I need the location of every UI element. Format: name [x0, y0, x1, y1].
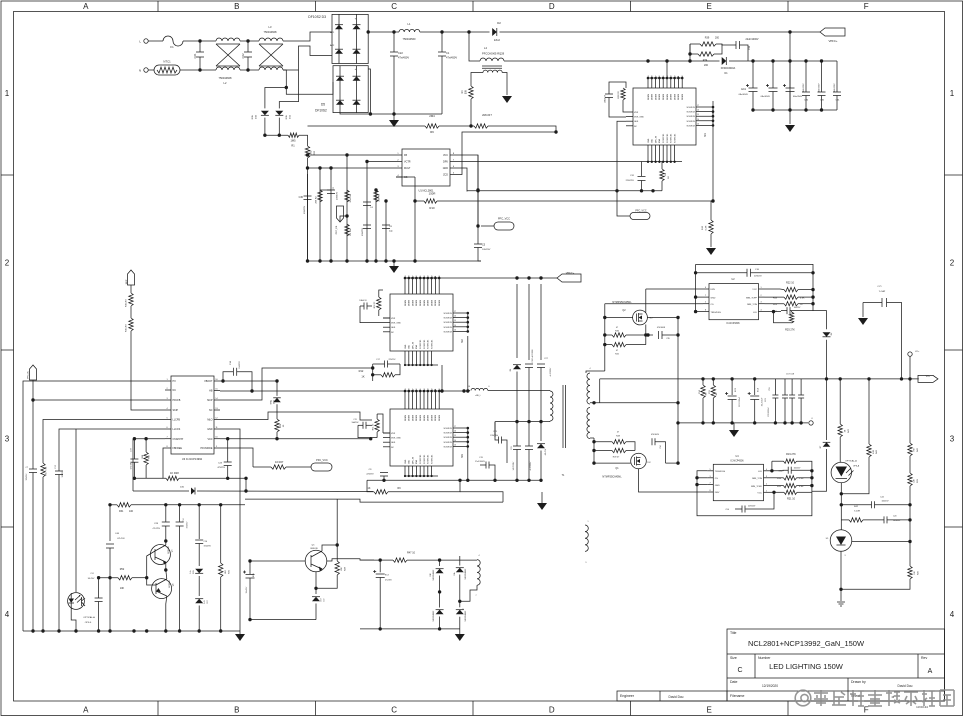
center tap wire	[590, 402, 678, 404]
U3 pin 16 VBOOT	[214, 380, 220, 382]
capacitor	[95, 597, 103, 599]
svg-text:4: 4	[766, 469, 767, 471]
svg-text:3: 3	[5, 435, 10, 444]
wire R11 down	[307, 158, 309, 261]
svg-text:12: 12	[431, 389, 433, 391]
svg-text:PFC_VCC: PFC_VCC	[316, 459, 328, 462]
capacitor C36 1N4/630V	[805, 61, 807, 92]
svg-text:15: 15	[454, 435, 456, 437]
capacitor C40 1N4/630V	[821, 61, 823, 92]
wire Q5 region to EC3 rail	[327, 559, 380, 561]
svg-text:ESU: ESU	[252, 114, 254, 119]
svg-text:4: 4	[760, 310, 761, 312]
svg-text:OPTICAL-A: OPTICAL-A	[845, 460, 857, 463]
U3 pin 10 VCC	[214, 438, 220, 440]
U3 pin 5 LLCFB	[165, 419, 171, 421]
wire gate node to vertical	[666, 462, 679, 464]
svg-text:11: 11	[678, 76, 680, 78]
svg-text:VO+: VO+	[915, 351, 920, 353]
svg-text:GND: GND	[405, 344, 407, 349]
EC3 and output aux	[360, 559, 374, 561]
wire MLO to low side gate	[220, 412, 372, 420]
svg-text:GND: GND	[207, 428, 213, 431]
sense rail junction	[711, 199, 714, 202]
svg-text:68u/450V: 68u/450V	[793, 96, 803, 98]
svg-text:ESU: ESU	[286, 114, 288, 119]
inductor L5	[471, 388, 488, 390]
GaN IC M1 outline	[633, 88, 696, 145]
resistor	[660, 169, 664, 181]
bottom bus of PFC controller	[308, 260, 482, 262]
svg-text:C1: C1	[446, 51, 450, 55]
resistor R50 33	[377, 297, 381, 310]
svg-text:PFC_VCC: PFC_VCC	[635, 210, 646, 213]
svg-text:GES: GES	[634, 121, 639, 123]
capacitor C10	[746, 269, 748, 277]
capacitor C46	[106, 543, 114, 545]
svg-text:2: 2	[5, 259, 10, 268]
svg-text:VDR_GND: VDR_GND	[634, 117, 644, 119]
zener D7	[823, 442, 831, 446]
svg-text:D1b: D1b	[454, 572, 456, 575]
svg-text:DRAIN: DRAIN	[404, 299, 407, 306]
diode	[353, 25, 361, 30]
svg-text:CS: CS	[715, 478, 719, 480]
U4 right rail	[811, 471, 813, 493]
connector PFC_VCC	[494, 222, 514, 230]
svg-text:R39: R39	[705, 37, 710, 40]
svg-text:B: B	[234, 706, 239, 715]
resistor R51 33	[375, 419, 379, 432]
junction	[246, 39, 249, 42]
svg-text:1S2/25V: 1S2/25V	[204, 546, 212, 548]
resistor R6	[425, 124, 439, 128]
U4 bottom wire	[697, 485, 812, 516]
U3 pin 12 MLO	[214, 419, 220, 421]
svg-text:EC4: EC4	[758, 388, 760, 392]
capacitor C14 104/25V	[233, 368, 235, 376]
svg-text:100K: 100K	[142, 454, 144, 459]
svg-text:13: 13	[428, 276, 430, 278]
svg-text:47n/450V: 47n/450V	[398, 56, 409, 60]
svg-text:22uF/1000V: 22uF/1000V	[745, 38, 758, 41]
resistor R15 2K7	[130, 306, 132, 318]
sync controller U4 NCP4306	[713, 464, 763, 500]
capacitor	[802, 91, 810, 93]
svg-text:DRAIN: DRAIN	[654, 93, 657, 100]
U1 pin 6 GND	[450, 167, 456, 169]
capacitor C54	[741, 506, 743, 513]
capacitor	[382, 224, 390, 226]
svg-text:18: 18	[652, 76, 654, 78]
svg-text:16: 16	[416, 276, 418, 278]
svg-text:10S/25V: 10S/25V	[62, 470, 64, 478]
bridge lower return bus	[340, 113, 394, 114]
wire VCC right	[456, 155, 478, 226]
U3 pin 15 HB	[214, 390, 220, 392]
svg-text:46L/10k: 46L/10k	[545, 449, 547, 455]
U2 pin 8 TRIG/DSS	[703, 311, 709, 313]
svg-text:13: 13	[697, 123, 699, 125]
svg-text:750344608: 750344608	[219, 76, 233, 80]
svg-text:15: 15	[420, 276, 422, 278]
svg-text:DRAIN: DRAIN	[434, 299, 437, 306]
svg-text:R34: R34	[703, 59, 708, 62]
svg-text:4: 4	[950, 610, 955, 619]
svg-text:10L/20V: 10L/20V	[88, 578, 95, 580]
capacitor	[605, 93, 613, 95]
resistor	[621, 88, 625, 100]
svg-text:U3 IC-NCP13992: U3 IC-NCP13992	[182, 457, 203, 461]
M1 left pins	[626, 111, 633, 113]
sync controller U2 NCP4306	[709, 284, 759, 320]
svg-text:Title: Title	[730, 631, 737, 635]
U4 pin 7 GND	[707, 484, 713, 486]
capacitor C42	[871, 501, 873, 508]
U2 GND wire	[696, 296, 703, 298]
U4 loop to resistors	[770, 470, 772, 472]
diode D13 MBR20H100F	[456, 610, 464, 615]
wire VCTR net	[367, 162, 396, 191]
svg-text:10S/25V: 10S/25V	[482, 249, 491, 251]
junction	[263, 134, 266, 137]
resistor R21 10	[770, 491, 775, 493]
junction main rail	[646, 59, 649, 62]
resistor R48 20K	[335, 561, 339, 575]
U4 left wires	[697, 471, 707, 485]
diode D1	[722, 57, 727, 65]
capacitor C21	[786, 307, 788, 314]
svg-text:C22: C22	[398, 51, 403, 55]
svg-text:SOURCE3: SOURCE3	[667, 134, 669, 143]
svg-text:20K R2: 20K R2	[316, 196, 318, 204]
svg-text:D17: D17	[321, 598, 323, 601]
svg-text:1S2: 1S2	[647, 462, 650, 464]
resistor R47 10	[393, 558, 407, 562]
svg-text:11: 11	[435, 389, 437, 391]
Q1 gate resistors R48 R49	[594, 441, 612, 443]
U4 pin 3 MIN_TON	[764, 477, 770, 479]
resistor	[129, 293, 133, 306]
svg-text:47S/25V: 47S/25V	[217, 467, 225, 469]
ground	[537, 503, 547, 510]
column tick marks bottom	[157, 701, 159, 716]
svg-text:DRAIN: DRAIN	[651, 93, 654, 100]
capacitor C21	[513, 445, 521, 447]
resistor	[345, 224, 349, 236]
wire FB net	[347, 155, 396, 188]
wire R1 to R11	[299, 135, 308, 146]
svg-text:SOURCE: SOURCE	[443, 318, 452, 320]
capacitor	[244, 51, 252, 53]
resistor R49 47	[612, 448, 626, 452]
net flag VPFC+	[820, 28, 845, 36]
ground	[389, 120, 399, 127]
net flag PFC_VCC	[476, 188, 479, 191]
inductor	[216, 38, 240, 41]
opto arrows	[75, 596, 80, 601]
opto cathode down	[840, 483, 842, 520]
svg-text:R12: R12	[359, 369, 364, 373]
U1 pin 8 VCC	[450, 154, 456, 156]
secondary bottom wire	[590, 437, 594, 439]
inductor	[259, 67, 283, 70]
Q1 source down	[639, 469, 644, 492]
svg-text:6: 6	[489, 386, 490, 388]
svg-text:VDD: VDD	[409, 344, 411, 349]
resistor R21 10	[784, 490, 797, 494]
M2 source pins	[453, 312, 468, 314]
M1 bottom pins	[647, 145, 649, 162]
diode	[353, 49, 361, 54]
svg-text:VPFC+: VPFC+	[566, 271, 575, 275]
M3 left pins	[383, 432, 390, 434]
svg-text:SOURCE: SOURCE	[443, 446, 452, 448]
svg-text:20K R5: 20K R5	[379, 194, 381, 202]
svg-text:EC5: EC5	[253, 573, 255, 577]
resistor	[275, 419, 279, 432]
bridge D5 output wire to bus	[368, 69, 370, 114]
M2 source bus	[467, 313, 469, 331]
resistor R23 1K	[784, 302, 798, 306]
M3 source pins	[453, 427, 468, 429]
capacitor C16	[195, 539, 203, 541]
U3 pin 4 SKIP	[165, 409, 171, 411]
bridge D3 + output wire	[368, 31, 394, 33]
svg-text:13: 13	[454, 444, 456, 446]
svg-text:VBOOT: VBOOT	[204, 380, 213, 383]
svg-text:13: 13	[428, 389, 430, 391]
cap EC2 68u/450V	[772, 61, 774, 88]
bottom rail	[360, 628, 460, 630]
TL431 U5	[830, 530, 852, 552]
svg-text:0.2R: 0.2R	[706, 225, 708, 230]
ground	[729, 430, 739, 437]
svg-text:18: 18	[409, 389, 411, 391]
svg-text:D5: D5	[321, 103, 325, 107]
svg-text:C21: C21	[511, 446, 513, 449]
U2 VCC wire	[765, 288, 781, 290]
M3 source bus bottom	[367, 479, 468, 481]
M1 source bus	[712, 107, 714, 125]
T2 winding	[477, 560, 480, 586]
svg-text:R16 2K7: R16 2K7	[126, 298, 128, 307]
svg-text:DF10S2 D3: DF10S2 D3	[308, 15, 326, 19]
upper VDR wiring	[379, 290, 383, 294]
svg-text:16: 16	[454, 316, 456, 318]
capacitor	[304, 195, 312, 197]
svg-text:1N4/630V: 1N4/630V	[819, 83, 821, 93]
svg-text:1M5: 1M5	[290, 139, 296, 143]
wire L1 to D2	[420, 31, 490, 33]
capacitor	[327, 189, 335, 191]
capacitor	[196, 51, 204, 53]
output rail junctions	[825, 377, 828, 380]
inductor	[480, 58, 504, 61]
svg-text:SOURCE: SOURCE	[443, 327, 452, 329]
capacitor across opto	[98, 578, 100, 598]
wire CS net	[396, 176, 415, 178]
resistor	[709, 220, 713, 234]
svg-text:6: 6	[705, 287, 706, 289]
choke L3 cross	[259, 44, 283, 66]
svg-text:D2: D2	[497, 21, 501, 25]
wire HV pin	[23, 381, 165, 631]
svg-text:22S/25V: 22S/25V	[389, 359, 397, 361]
svg-text:R10: R10	[429, 206, 435, 210]
return line	[250, 619, 316, 621]
svg-text:1K R28: 1K R28	[170, 471, 179, 475]
cap EC8	[731, 379, 733, 395]
svg-text:LLD: LLD	[758, 471, 762, 473]
lower output rail	[678, 422, 808, 424]
svg-text:57uF/1000V: 57uF/1000V	[475, 461, 486, 463]
opto feed R43	[839, 379, 841, 424]
zener D40	[191, 488, 195, 495]
wire OVR bottom	[134, 477, 163, 479]
capacitor C20	[883, 516, 885, 523]
U4 CS wire	[697, 477, 707, 479]
svg-text:C35: C35	[666, 338, 669, 340]
capacitor C17	[384, 361, 386, 368]
resistor R13b NC	[711, 385, 715, 398]
svg-text:10N/25V: 10N/25V	[893, 520, 901, 522]
svg-text:LLCCS: LLCCS	[173, 428, 181, 431]
M3 bottom bus	[405, 475, 438, 477]
TL431 ground	[840, 589, 842, 601]
svg-text:4n7/1000V: 4n7/1000V	[550, 367, 552, 376]
fuse F1	[148, 40, 163, 42]
svg-text:MIN_TON: MIN_TON	[752, 478, 762, 480]
svg-text:LLCFB: LLCFB	[173, 419, 181, 422]
svg-text:R19 27K: R19 27K	[786, 453, 796, 456]
svg-text:NC: NC	[173, 389, 177, 392]
zener D16	[273, 398, 281, 402]
svg-text:PFC_FB: PFC_FB	[336, 225, 338, 234]
diode D6	[823, 332, 831, 337]
svg-text:15: 15	[663, 76, 665, 78]
resistor	[345, 190, 349, 202]
U2 TRIG wire	[696, 311, 703, 313]
wire MUP to high side gate	[220, 368, 373, 400]
svg-text:16: 16	[659, 76, 661, 78]
wire L to filter	[183, 40, 216, 42]
svg-text:2M4 R7: 2M4 R7	[482, 113, 492, 117]
svg-text:19: 19	[405, 389, 407, 391]
wire GND	[220, 429, 240, 631]
svg-text:47u/35V: 47u/35V	[385, 580, 392, 582]
TL431 wiring	[840, 520, 842, 530]
wire R4 to divider	[470, 99, 472, 126]
svg-text:TRIG/DSS: TRIG/DSS	[715, 471, 726, 473]
T1 secondary upper	[587, 373, 590, 404]
svg-text:SOURCE: SOURCE	[443, 428, 452, 430]
wire R7 right	[488, 126, 556, 132]
resistor R28 1K	[163, 448, 166, 478]
svg-text:9: 9	[586, 562, 587, 564]
wire R31 node down	[109, 505, 111, 541]
U2 pin 7 GND	[703, 296, 709, 298]
svg-text:16: 16	[468, 386, 470, 388]
svg-text:MBR20H100F: MBR20H100F	[465, 611, 467, 622]
T1 aux winding	[585, 525, 588, 551]
svg-text:OPS-A: OPS-A	[853, 465, 860, 468]
svg-text:DRAIN: DRAIN	[415, 414, 418, 421]
transistor Q3	[150, 545, 170, 565]
Q2 source vertical full	[604, 345, 606, 371]
svg-text:1K: 1K	[368, 487, 371, 490]
svg-text:7: 7	[705, 295, 706, 297]
svg-text:HB: HB	[209, 390, 213, 393]
svg-text:14: 14	[454, 325, 456, 327]
svg-text:D10: D10	[430, 573, 432, 576]
resistor R27	[271, 465, 286, 469]
svg-text:D: D	[549, 706, 555, 715]
Q3 connections	[165, 541, 167, 545]
svg-text:VDD: VDD	[652, 138, 654, 143]
zener D17 15V	[312, 597, 320, 602]
resistor R31 100	[117, 503, 131, 507]
resistor R44	[867, 444, 871, 457]
capacitor C23	[224, 461, 232, 463]
U2 pin 6 DRV	[703, 288, 709, 290]
svg-text:2: 2	[766, 484, 767, 486]
svg-text:GND: GND	[648, 138, 650, 143]
inductor	[483, 70, 502, 72]
svg-text:FBFREE: FBFREE	[173, 447, 183, 450]
U3 pin 11 GND	[214, 428, 220, 430]
svg-text:19: 19	[405, 276, 407, 278]
terminal VO-	[809, 421, 813, 425]
svg-text:DRV_IN: DRV_IN	[412, 456, 414, 464]
svg-text:19: 19	[648, 76, 650, 78]
svg-text:EC8: EC8	[735, 388, 737, 392]
svg-text:BD8L3B: BD8L3B	[310, 548, 318, 550]
svg-text:17: 17	[454, 311, 456, 313]
svg-text:100/25V: 100/25V	[794, 307, 801, 309]
ground	[389, 266, 399, 273]
svg-text:NTMFS5C645NL: NTMFS5C645NL	[602, 476, 622, 479]
svg-text:SOURCE3: SOURCE3	[428, 455, 430, 464]
wire LLCFB	[43, 420, 165, 464]
wire VCC rail	[220, 438, 371, 440]
svg-text:PFC_IN: PFC_IN	[28, 371, 30, 379]
GaN IC M3 outline	[390, 409, 453, 466]
svg-text:12: 12	[674, 76, 676, 78]
resistor R22 10	[784, 287, 798, 291]
svg-text:8: 8	[709, 490, 710, 492]
svg-text:VCTR: VCTR	[404, 161, 411, 164]
svg-text:DRAIN: DRAIN	[411, 299, 414, 306]
svg-text:3: 3	[950, 435, 955, 444]
U3 pin 14 MUP	[214, 399, 220, 401]
resistor R18	[784, 476, 797, 480]
capacitor C2	[330, 168, 332, 261]
svg-text:MIN_TOFF: MIN_TOFF	[746, 297, 758, 299]
U1 pin 7 DRV	[450, 161, 456, 163]
svg-text:GES: GES	[391, 442, 396, 444]
resistor R54 4.6K	[765, 296, 785, 298]
svg-text:10: 10	[439, 389, 441, 391]
zener D17	[195, 599, 203, 604]
capacitor C12	[176, 521, 184, 523]
svg-text:14: 14	[424, 389, 426, 391]
resistor R14 13K	[346, 188, 348, 261]
svg-text:M1: M1	[703, 133, 707, 137]
resistor R20 6.8K	[770, 485, 784, 487]
capacitor	[390, 51, 398, 53]
half-bridge node rail	[220, 390, 468, 392]
